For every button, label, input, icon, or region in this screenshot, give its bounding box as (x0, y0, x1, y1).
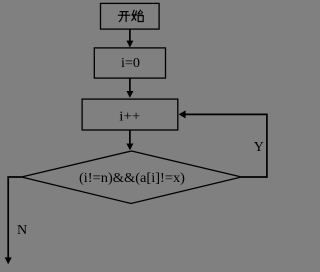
arrowhead into decision (126, 144, 133, 151)
svg-text:i=0: i=0 (121, 56, 140, 71)
arrowhead into i++ (126, 91, 133, 98)
svg-text:i++: i++ (119, 110, 140, 125)
process box: i=0 (94, 48, 165, 78)
wire: start to i=0 (129, 29, 131, 41)
svg-text:N: N (17, 223, 27, 238)
arrowhead into i++ right side (179, 110, 186, 118)
process box: start (开始) (101, 3, 160, 29)
svg-text:Y: Y (254, 140, 264, 155)
wire: loop back (Y branch) right then up (185, 114, 267, 177)
wire: i=0 to i++ (129, 78, 131, 92)
arrowhead exit down (5, 257, 12, 264)
wire: exit (N branch) left then down (8, 177, 21, 258)
label 开始 (drawn strokes) (118, 10, 143, 22)
process box: i++ (82, 99, 178, 130)
arrowhead into i=0 (126, 41, 133, 48)
svg-text:(i!=n)&&(a[i]!=x): (i!=n)&&(a[i]!=x) (79, 171, 185, 186)
wire: i++ to decision (129, 130, 131, 145)
decision diamond (22, 151, 242, 204)
